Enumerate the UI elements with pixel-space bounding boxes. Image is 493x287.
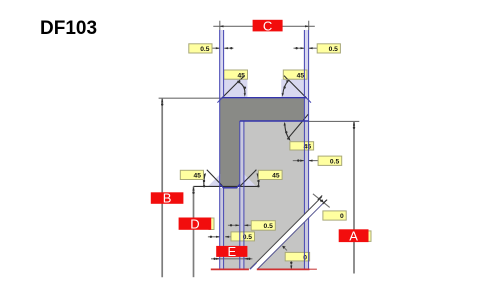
chamfer diagonal inner top-right corner [287,114,308,139]
C dimension line [213,25,314,27]
white strip upper-left edge [250,197,322,269]
svg-text:0: 0 [340,213,344,220]
chamfer diagonal column bottom-right [240,170,257,187]
red label box E [216,246,247,257]
lavender strip right outer edge [304,30,309,98]
red baseline left segment [211,268,249,270]
lavender chamfer zone top-left [220,79,248,98]
45 angle arc top-right [283,81,289,95]
yellow value box 0.5 top-left [189,44,212,53]
A dimension vertical line [353,122,355,274]
45 angle arc column bottom-left [204,174,205,186]
45 angle arc column bottom-right [257,174,258,186]
lavender chamfer zone top-right [281,79,309,98]
lavender band inner-left leg [240,121,244,269]
D dimension top arrowhead [192,187,194,191]
0.5 dimension mid-right: line and arrows [293,160,304,162]
svg-text:0.5: 0.5 [264,223,274,230]
svg-text:45: 45 [272,173,280,180]
chamfer diagonal top-right corner [284,75,307,98]
D dimension extension line [193,185,259,187]
blue outline column bottom chamfer [220,184,240,188]
blue line left outer companion bottom [223,188,225,269]
lavender band bottom-left leg [220,188,224,269]
0.5 dimension top-right: line and arrows [294,47,305,49]
C dimension arrowhead right [305,25,309,27]
yellow value box 45 bottom-left [180,170,203,179]
svg-text:A: A [349,228,358,243]
lavender band right leg [304,98,308,269]
0.5 dimension bottom #2: line and arrows [208,236,220,238]
lavender triangle column bottom-left [208,174,220,186]
blue line inner top surface [240,120,309,122]
C dimension arrowhead left [219,25,223,27]
yellow value box 0 diagonal [323,211,346,220]
blue lower portion of strip edge [250,263,256,269]
svg-text:0: 0 [303,255,307,262]
yellow value box 45 inner right [290,142,314,150]
D dimension vertical line [193,187,195,278]
svg-text:C: C [263,18,272,33]
svg-text:B: B [163,191,172,206]
yellow value box 45 top-left [224,70,248,79]
svg-text:DF103: DF103 [40,18,97,39]
svg-text:45: 45 [297,72,305,79]
light gray body of profile [220,121,309,269]
45 angle arc inner top-right [285,123,290,139]
0.5 dimension bottom #1: line and arrows [228,224,239,226]
yellow sliver behind D box [209,218,214,230]
E dimension line with arrows [211,258,252,260]
chamfer diagonal top-left corner [222,75,245,98]
red label box D [179,218,212,230]
blue line left outer edge [219,30,221,269]
B dimension top arrowhead [161,98,163,102]
yellow sliver behind A box [366,231,371,242]
white strip lower-right edge [258,200,327,269]
dark gray left column of profile [220,121,240,188]
yellow value box 0 baseline [285,252,309,261]
red label box A [339,229,369,242]
svg-text:0.5: 0.5 [200,46,210,53]
strip width tick lower [323,200,327,204]
A dimension extension line [309,120,360,122]
B dimension vertical line [161,99,163,278]
yellow value box 0.5 mid-right [318,156,342,165]
C dimension extension line left [219,21,221,30]
yellow value box 0.5 bottom #2 [231,232,255,241]
blue line top surface [222,97,307,99]
lavender triangle column bottom-right [244,174,256,186]
chamfer diagonal tip over top-right 45 box [284,76,288,80]
svg-text:E: E [227,244,236,259]
A dimension top arrowhead [353,122,355,126]
strip width tick upper [318,196,322,200]
blue stub below top-right corner [307,98,311,103]
red baseline right segment [257,268,310,270]
svg-text:45: 45 [194,173,202,180]
lavender triangle inner top-right corner [303,115,309,121]
0 dimension at baseline: leader and arrows [283,246,287,250]
yellow value box 45 top-right [283,70,307,79]
B dimension extension line [159,97,222,99]
lavender strip left outer edge [219,30,224,98]
svg-text:D: D [190,216,199,231]
blue line inner-left pair [239,121,241,269]
45 angle arc top-left [238,81,245,94]
red label box B [151,192,184,204]
white diagonal strip [249,197,326,270]
svg-text:0.5: 0.5 [329,46,339,53]
svg-text:0.5: 0.5 [330,159,340,166]
dark gray top bar of profile [220,98,309,121]
blue line left outer companion top [223,30,225,98]
0.5 dimension top-left: line and arrows [212,47,219,49]
blue line right outer pair [303,30,305,269]
chamfer diagonal tip over top-left 45 box [241,76,245,80]
chamfer diagonal column bottom-left [207,170,223,186]
blue stub below top-left corner [217,98,221,103]
red label box C [253,20,283,32]
C dimension extension line right [308,21,310,30]
yellow value box 45 bottom-right [258,170,282,179]
yellow value box 0.5 bottom #1 [251,221,275,231]
red baseline thin right tail [310,268,317,270]
strip width dimension leader [313,194,330,208]
yellow value box 0.5 top-right [317,44,340,53]
